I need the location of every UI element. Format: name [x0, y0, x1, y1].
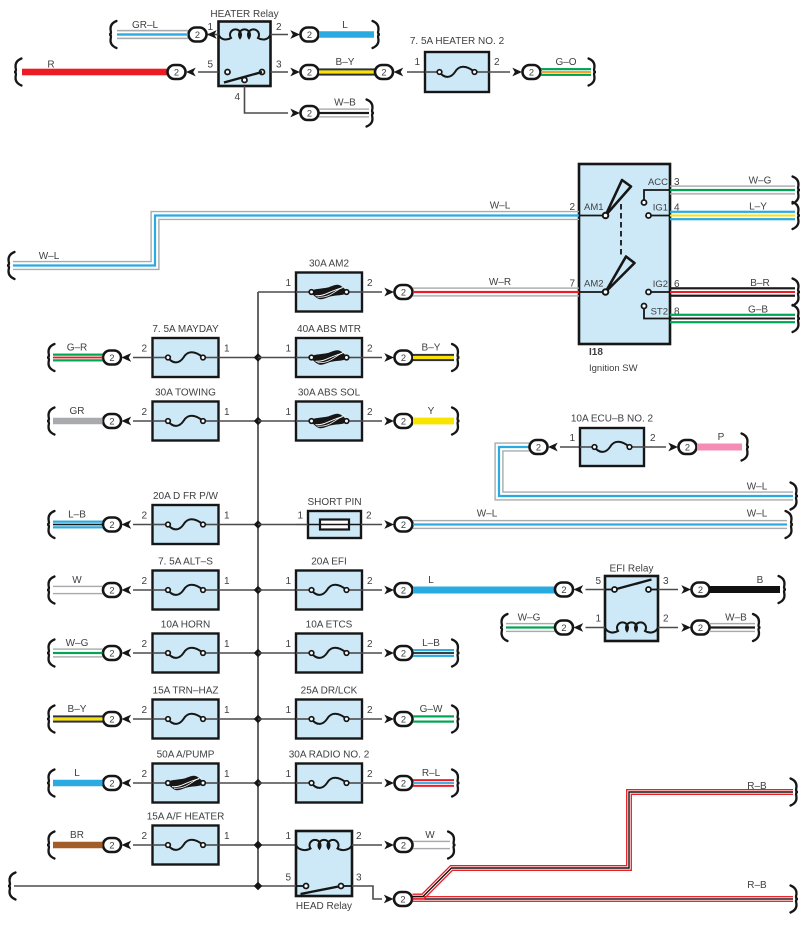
wire W-B: [319, 100, 374, 127]
junction: [254, 841, 262, 849]
dashed link: [620, 204, 622, 257]
wire L lead: [133, 782, 152, 784]
wire head pin2 lead: [352, 844, 382, 846]
svg-text:2: 2: [367, 344, 373, 355]
wire fuse to bus: [219, 357, 258, 359]
svg-text:2: 2: [109, 416, 114, 426]
svg-text:P: P: [718, 432, 725, 443]
wire fuse output lead: [644, 446, 666, 448]
svg-text:1: 1: [224, 705, 230, 716]
svg-text:G–W: G–W: [420, 704, 443, 715]
svg-text:R–B: R–B: [747, 781, 767, 792]
svg-text:2: 2: [109, 778, 114, 788]
wire P: [697, 434, 749, 461]
wire fuse output lead: [362, 357, 382, 359]
svg-text:W–G: W–G: [518, 613, 541, 624]
svg-text:3: 3: [356, 873, 362, 884]
svg-text:2: 2: [663, 614, 669, 625]
wire G–W: [413, 706, 460, 733]
svg-text:2: 2: [141, 344, 147, 355]
svg-text:25A DR/LCK: 25A DR/LCK: [301, 686, 358, 697]
svg-text:1: 1: [224, 576, 230, 587]
svg-text:W–B: W–B: [725, 613, 747, 624]
wire fuse output lead: [362, 782, 382, 784]
connector 2 (ECU-B in): [530, 440, 548, 454]
svg-text:W–L: W–L: [39, 251, 60, 262]
svg-text:2: 2: [381, 67, 386, 77]
wire R: [14, 59, 167, 86]
wire G-B: [670, 305, 800, 332]
wire fuse to bus: [219, 589, 258, 591]
svg-text:W–B: W–B: [334, 98, 356, 109]
svg-text:4: 4: [234, 92, 240, 103]
wire B–Y: [47, 706, 103, 733]
wire to fuse HEATER NO.2: [407, 71, 425, 73]
connector 2 (W): [384, 841, 394, 850]
connector 2 (Y): [384, 417, 394, 426]
wire heater pin2 lead: [271, 34, 289, 36]
wire B-Y: [319, 68, 376, 70]
svg-text:1: 1: [285, 705, 291, 716]
fuse 15A A/F HEATER: [153, 826, 219, 865]
connector 2 (W–L): [384, 520, 394, 529]
svg-text:G–O: G–O: [555, 57, 576, 68]
wire bus to fuse: [258, 420, 296, 422]
svg-text:2: 2: [141, 831, 147, 842]
wire W: [47, 577, 103, 604]
relay HEAD Relay: [296, 831, 352, 896]
svg-text:2: 2: [141, 705, 147, 716]
svg-text:2: 2: [401, 778, 406, 788]
svg-text:W–L: W–L: [490, 201, 511, 212]
svg-text:1: 1: [595, 614, 601, 625]
svg-text:ACC: ACC: [648, 177, 668, 188]
svg-text:W–G: W–G: [749, 176, 772, 187]
wire W-L (battery feed): [7, 212, 579, 279]
svg-text:2: 2: [141, 407, 147, 418]
wire R–L: [413, 770, 460, 797]
svg-text:W–L: W–L: [747, 482, 768, 493]
svg-text:2: 2: [367, 278, 373, 289]
svg-text:30A ABS SOL: 30A ABS SOL: [298, 388, 361, 399]
svg-text:3: 3: [276, 60, 282, 71]
svg-text:EFI Relay: EFI Relay: [610, 564, 654, 575]
svg-text:10A ETCS: 10A ETCS: [306, 620, 353, 631]
svg-text:2: 2: [307, 67, 312, 77]
connector 2 (L): [384, 586, 394, 595]
svg-text:2: 2: [400, 894, 405, 904]
svg-text:2: 2: [174, 67, 179, 77]
fuse 10A HORN: [153, 634, 219, 673]
svg-text:5: 5: [285, 873, 291, 884]
svg-text:7. 5A ALT–S: 7. 5A ALT–S: [158, 557, 213, 568]
wire W-R: [413, 287, 579, 288]
wire lead pin3: [658, 589, 678, 591]
svg-text:2: 2: [401, 714, 406, 724]
svg-text:B–Y: B–Y: [422, 343, 441, 354]
wire lead pin1: [586, 627, 606, 629]
svg-text:1: 1: [207, 22, 213, 33]
connector 2 (W–G): [103, 646, 121, 660]
svg-text:BR: BR: [70, 830, 84, 841]
wire fuse to bus: [219, 524, 258, 526]
svg-text:15A TRN–HAZ: 15A TRN–HAZ: [153, 686, 219, 697]
junction: [254, 520, 262, 528]
svg-text:AM1: AM1: [584, 202, 604, 213]
contact AM1: [603, 213, 609, 219]
contact IG2: [646, 290, 651, 295]
svg-text:1: 1: [285, 831, 291, 842]
svg-text:2: 2: [698, 623, 703, 633]
svg-text:2: 2: [109, 840, 114, 850]
wire L–B lead: [133, 524, 152, 526]
connector 2 (W-B): [290, 109, 300, 118]
svg-text:AM2: AM2: [584, 279, 604, 290]
svg-text:2: 2: [367, 576, 373, 587]
svg-text:20A D FR P/W: 20A D FR P/W: [153, 491, 219, 502]
fuse 10A ETCS: [296, 634, 362, 673]
svg-text:2: 2: [401, 416, 406, 426]
connector 2 (G-O): [512, 68, 522, 77]
junction: [254, 882, 262, 890]
svg-text:I18: I18: [589, 347, 603, 358]
svg-text:G–R: G–R: [67, 343, 88, 354]
svg-text:R–B: R–B: [747, 880, 767, 891]
connector 2 (B-Y left): [290, 68, 300, 77]
svg-text:Ignition SW: Ignition SW: [589, 363, 638, 374]
wire L-Y: [670, 202, 800, 229]
svg-text:2: 2: [307, 30, 312, 40]
wire heater pin3 lead: [271, 71, 289, 73]
wire W–G: [47, 640, 103, 667]
connector 2 (B): [681, 585, 691, 594]
svg-text:2: 2: [109, 353, 114, 363]
svg-text:2: 2: [685, 442, 690, 452]
junction: [254, 649, 262, 657]
svg-text:1: 1: [285, 639, 291, 650]
wire W–G lead: [133, 652, 152, 654]
svg-text:2: 2: [276, 22, 282, 33]
wire BR: [47, 832, 103, 859]
connector 2 (W-G): [555, 621, 573, 635]
wire B-R: [670, 279, 800, 306]
junction: [254, 417, 262, 425]
svg-text:R–L: R–L: [422, 768, 441, 779]
junction: [254, 715, 262, 723]
svg-text:7. 5A HEATER NO. 2: 7. 5A HEATER NO. 2: [410, 36, 505, 47]
contact ACC: [642, 200, 647, 205]
svg-text:2: 2: [109, 714, 114, 724]
connector 2 (L into relay): [555, 583, 573, 597]
fuse 25A DR/LCK: [296, 700, 362, 739]
wire fuse to bus: [219, 718, 258, 720]
wire fuse output lead: [362, 589, 382, 591]
wire B: [709, 576, 786, 603]
svg-text:10A ECU–B NO. 2: 10A ECU–B NO. 2: [571, 414, 654, 425]
wire fuse to bus: [219, 420, 258, 422]
svg-text:B–R: B–R: [750, 278, 769, 289]
svg-text:2: 2: [356, 831, 362, 842]
svg-text:1: 1: [285, 576, 291, 587]
wire W-G (EFI relay coil): [500, 614, 555, 641]
wire AM2 output lead: [362, 291, 382, 293]
relay HEATER Relay: [219, 22, 271, 87]
junction: [254, 586, 262, 594]
svg-text:2: 2: [109, 648, 114, 658]
connector 2 (R–L): [384, 779, 394, 788]
svg-text:2: 2: [529, 67, 534, 77]
svg-text:HEAD Relay: HEAD Relay: [296, 901, 352, 912]
wire W–L: [413, 511, 793, 538]
svg-text:L: L: [74, 768, 80, 779]
svg-text:B: B: [757, 575, 764, 586]
svg-text:2: 2: [141, 639, 147, 650]
svg-text:2: 2: [141, 511, 147, 522]
wire lead pin5: [586, 589, 606, 591]
svg-text:3: 3: [663, 576, 669, 587]
svg-text:1: 1: [297, 511, 303, 522]
svg-text:2: 2: [401, 840, 406, 850]
wire heater pin1 lead: [207, 34, 219, 36]
connector 2 (GR): [103, 414, 121, 428]
fuse 30A RADIO NO. 2: [296, 764, 362, 803]
connector 2 (L): [103, 776, 121, 790]
svg-text:1: 1: [224, 511, 230, 522]
junction: [254, 841, 262, 849]
fuse 30A TOWING: [153, 402, 219, 441]
wire fuse output lead: [362, 652, 382, 654]
contact IG1: [646, 213, 651, 218]
wire B–Y lead: [133, 718, 152, 720]
curl: [791, 483, 799, 510]
connector 2 (R): [168, 65, 186, 79]
switch I18 Ignition SW: [579, 164, 670, 344]
wire bus to fuse: [258, 589, 296, 591]
wire G-O: [541, 59, 596, 86]
contact ST2: [642, 304, 647, 309]
wire R-B (lower): [413, 886, 799, 913]
wire W-L (ECU-B feed): [503, 451, 793, 492]
wiper AM2: [606, 257, 635, 293]
wire W-G: [670, 177, 800, 204]
wire L: [413, 587, 555, 594]
svg-text:1: 1: [414, 57, 420, 68]
wire L: [319, 21, 380, 48]
connector 2 (R-B): [384, 895, 394, 904]
svg-text:IG2: IG2: [653, 279, 668, 290]
wire bus to HEAD relay pin1: [258, 844, 296, 846]
svg-text:2: 2: [367, 639, 373, 650]
svg-text:2: 2: [401, 520, 406, 530]
wire bus to fuse: [258, 524, 296, 526]
svg-text:SHORT PIN: SHORT PIN: [307, 497, 361, 508]
svg-text:5: 5: [207, 60, 213, 71]
svg-text:W–G: W–G: [66, 638, 89, 649]
svg-text:1: 1: [285, 407, 291, 418]
wire W: [413, 832, 456, 859]
wire L–B: [47, 511, 103, 538]
wire bus to fuse: [258, 652, 296, 654]
wire bus to fuse: [258, 357, 296, 359]
fuse 10A ECU-B NO. 2: [580, 428, 644, 466]
wire head pin3 lead: [352, 886, 382, 899]
relay EFI Relay: [605, 576, 658, 641]
svg-text:2: 2: [366, 511, 372, 522]
fuse 30A ABS SOL: [296, 402, 362, 441]
svg-text:5: 5: [595, 576, 601, 587]
svg-text:G–B: G–B: [748, 305, 768, 316]
connector 2 (P): [668, 443, 678, 452]
wire GR-L: [109, 21, 188, 48]
wire ground feed (bottom): [8, 873, 296, 900]
connector 2 (L–B): [103, 518, 121, 532]
svg-text:2: 2: [367, 769, 373, 780]
wire bus to fuse: [258, 718, 296, 720]
svg-text:L–B: L–B: [422, 638, 440, 649]
wire fuse to bus: [219, 844, 258, 846]
fuse 7.5A HEATER NO. 2: [425, 52, 489, 92]
svg-text:L: L: [428, 575, 434, 586]
svg-text:B–Y: B–Y: [336, 57, 355, 68]
svg-text:W–R: W–R: [489, 277, 511, 288]
wire fuse output lead: [489, 71, 510, 73]
connector 2 (G–R): [103, 351, 121, 365]
wire G–R lead: [133, 357, 152, 359]
connector 2 (W-B): [681, 623, 691, 632]
svg-text:L–B: L–B: [68, 510, 86, 521]
wire lead to fuse: [560, 446, 580, 448]
svg-text:2: 2: [494, 57, 500, 68]
wiper AM1: [606, 180, 632, 216]
wire lead pin2: [658, 627, 678, 629]
junction: [254, 779, 262, 787]
svg-text:30A AM2: 30A AM2: [309, 259, 349, 270]
svg-text:10A HORN: 10A HORN: [161, 620, 210, 631]
svg-text:IG1: IG1: [653, 203, 668, 214]
svg-text:2: 2: [401, 353, 406, 363]
wire bus to fuse: [258, 782, 296, 784]
junction: [254, 353, 262, 361]
wire bus to 30A AM2: [258, 291, 296, 293]
wire W-B: [709, 614, 761, 641]
wire W lead: [133, 589, 152, 591]
svg-text:7. 5A MAYDAY: 7. 5A MAYDAY: [152, 324, 219, 335]
fuse 15A TRN–HAZ: [153, 700, 219, 739]
wire GR: [47, 408, 103, 435]
wire fuse to bus: [219, 782, 258, 784]
svg-text:2: 2: [401, 585, 406, 595]
svg-text:2: 2: [109, 520, 114, 530]
wire BR lead: [133, 844, 152, 846]
fuse 7. 5A MAYDAY: [153, 338, 219, 377]
svg-text:2: 2: [536, 442, 541, 452]
svg-text:2: 2: [109, 585, 114, 595]
svg-text:40A ABS MTR: 40A ABS MTR: [297, 324, 361, 335]
connector 2 (BR): [103, 838, 121, 852]
svg-text:ST2: ST2: [651, 307, 668, 318]
svg-text:HEATER Relay: HEATER Relay: [210, 9, 278, 20]
connector 2 (B–Y): [384, 353, 394, 362]
svg-text:1: 1: [224, 407, 230, 418]
connector 2 (B-Y right): [375, 65, 393, 79]
connector 2 (L): [290, 30, 300, 39]
svg-text:2: 2: [195, 30, 200, 40]
connector 2 (W-R): [384, 288, 394, 297]
svg-text:R: R: [47, 60, 54, 71]
svg-text:30A TOWING: 30A TOWING: [155, 388, 216, 399]
contact AM2: [603, 289, 609, 295]
wire L–B: [413, 640, 460, 667]
connector 2 (L–B): [384, 649, 394, 658]
fuse 7. 5A ALT–S: [153, 571, 219, 610]
svg-text:L–Y: L–Y: [749, 202, 767, 213]
svg-text:1: 1: [224, 639, 230, 650]
svg-text:50A A/PUMP: 50A A/PUMP: [157, 750, 215, 761]
svg-text:GR–L: GR–L: [132, 20, 159, 31]
svg-text:W: W: [425, 830, 435, 841]
svg-text:20A EFI: 20A EFI: [311, 557, 347, 568]
svg-text:2: 2: [561, 585, 566, 595]
svg-text:2: 2: [307, 108, 312, 118]
svg-text:W–L: W–L: [477, 509, 498, 520]
svg-text:2: 2: [401, 287, 406, 297]
svg-text:2: 2: [650, 433, 656, 444]
svg-text:GR: GR: [70, 406, 85, 417]
svg-text:1: 1: [224, 831, 230, 842]
connector 2 (G–W): [384, 715, 394, 724]
svg-text:1: 1: [224, 344, 230, 355]
fuse 50A A/PUMP: [153, 764, 219, 803]
svg-text:2: 2: [698, 585, 703, 595]
wire heater pin4 lead: [245, 86, 289, 113]
connector 2 (GR-L): [207, 30, 217, 39]
fuse 20A D FR P/W: [153, 505, 219, 544]
svg-text:1: 1: [285, 344, 291, 355]
wire fuse output lead: [362, 718, 382, 720]
fuse 40A ABS MTR: [296, 338, 362, 377]
wire R-B (upper): [413, 779, 799, 899]
wire fuse output lead: [362, 420, 382, 422]
wire L: [47, 770, 103, 797]
svg-text:2: 2: [141, 576, 147, 587]
wire B–Y: [413, 344, 460, 371]
svg-text:1: 1: [285, 769, 291, 780]
svg-text:1: 1: [569, 433, 575, 444]
wire Y: [413, 408, 460, 435]
svg-text:2: 2: [141, 769, 147, 780]
fuse 30A AM2: [296, 273, 362, 312]
wire GR lead: [133, 420, 152, 422]
svg-text:2: 2: [561, 623, 566, 633]
svg-text:W: W: [72, 575, 82, 586]
svg-text:15A A/F HEATER: 15A A/F HEATER: [147, 812, 225, 823]
svg-text:2: 2: [367, 705, 373, 716]
svg-text:2: 2: [401, 648, 406, 658]
wire fuse to bus: [219, 652, 258, 654]
svg-text:1: 1: [285, 278, 291, 289]
short pin SHORT PIN: [308, 511, 361, 538]
svg-text:L: L: [342, 20, 348, 31]
connector 2 (W): [103, 583, 121, 597]
svg-text:1: 1: [224, 769, 230, 780]
svg-text:Y: Y: [428, 406, 435, 417]
svg-text:W–L: W–L: [747, 509, 768, 520]
svg-text:30A RADIO NO. 2: 30A RADIO NO. 2: [289, 750, 370, 761]
svg-text:2: 2: [367, 407, 373, 418]
svg-text:B–Y: B–Y: [68, 704, 87, 715]
bus wire (battery bus): [257, 292, 259, 886]
wire heater pin5 lead: [198, 71, 219, 73]
